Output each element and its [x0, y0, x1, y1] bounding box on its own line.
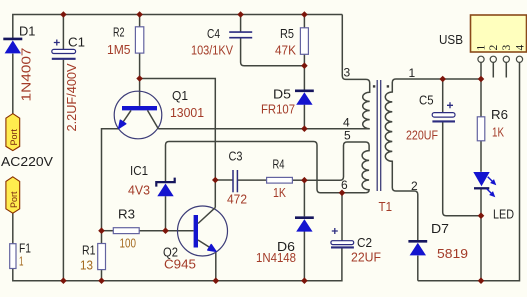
wire C3 right to R4	[237, 179, 266, 181]
capacitor C4	[229, 32, 252, 38]
wire Q1 collector to pin4	[158, 128, 370, 130]
node C4 top	[237, 11, 244, 18]
values orange	[19, 236, 136, 273]
wire C4 bottom to R5	[241, 38, 305, 66]
svg-text:R5: R5	[280, 26, 294, 41]
svg-text:4: 4	[343, 115, 350, 129]
wire Q1 emitter run	[102, 129, 119, 231]
svg-text:D5: D5	[273, 87, 291, 102]
wire LED bottom	[480, 188, 482, 281]
node C1 bottom rail	[60, 277, 67, 284]
svg-text:6: 6	[341, 178, 348, 192]
wire port2 to F1	[12, 213, 14, 244]
svg-text:2: 2	[411, 179, 418, 193]
transistor Q2	[178, 206, 228, 256]
svg-text:R2: R2	[113, 24, 125, 39]
node R2 top	[136, 11, 143, 18]
wire D6 top	[303, 180, 305, 216]
svg-text:Q1: Q1	[172, 88, 188, 103]
USB pin circle 1	[478, 56, 484, 62]
svg-text:USB: USB	[439, 33, 463, 47]
transformer T1 core	[377, 80, 381, 191]
capacitor C3	[233, 170, 237, 192]
values red	[19, 42, 505, 272]
capacitor C2	[331, 228, 354, 247]
node Q2 emitter rail	[213, 277, 220, 284]
node R2 bottom / Q1 base	[136, 75, 143, 82]
svg-text:5819: 5819	[437, 246, 468, 261]
wire D5 bottom	[303, 105, 305, 129]
wire R5 top	[303, 15, 305, 28]
node LED / C5	[478, 212, 485, 219]
svg-text:T1: T1	[379, 199, 393, 214]
wire R3 right to Q2 base	[139, 230, 193, 232]
svg-text:C1: C1	[68, 35, 85, 50]
wire R2 to Q2 collector	[140, 79, 216, 208]
wire R1 top	[101, 231, 103, 244]
svg-text:AC220V: AC220V	[1, 154, 53, 169]
wire R1 bottom	[101, 270, 103, 281]
resistor R3 body	[113, 228, 139, 234]
svg-text:R1: R1	[82, 243, 96, 258]
svg-text:R3: R3	[118, 207, 135, 222]
zener diode IC1	[156, 178, 174, 197]
svg-text:2: 2	[488, 45, 500, 51]
node LED rail	[478, 277, 485, 284]
node D5 bottom / pin4	[301, 125, 308, 132]
wire USB pin2 stub	[492, 62, 494, 77]
wire R6 to LED	[480, 141, 482, 172]
svg-text:3: 3	[344, 66, 351, 80]
node R3 right / IC1	[162, 227, 169, 234]
node pin1 / R6	[478, 76, 485, 83]
node D6 bottom rail	[301, 277, 308, 284]
wire C3 left	[215, 179, 232, 181]
resistor R1 body	[98, 244, 106, 270]
svg-text:1: 1	[19, 254, 24, 269]
T1 polarity dot upper	[373, 85, 375, 87]
capacitor C1	[52, 40, 76, 59]
svg-text:47K: 47K	[275, 42, 296, 57]
transformer pin numbers	[341, 66, 418, 194]
wire R3 left	[102, 230, 114, 232]
svg-text:C945: C945	[164, 257, 196, 272]
wire D5 top	[303, 66, 305, 90]
svg-text:13: 13	[80, 258, 93, 273]
wire C2 top	[341, 193, 343, 241]
wire D6 bottom	[303, 231, 305, 280]
wire R2 top	[139, 15, 141, 27]
wire C5 bottom to LED node	[443, 123, 481, 216]
T1 polarity dot secondary	[387, 85, 389, 87]
svg-text:103/1KV: 103/1KV	[191, 43, 233, 58]
wire bottom rail left	[13, 248, 342, 281]
svg-text:R4: R4	[273, 157, 285, 172]
svg-text:1M5: 1M5	[107, 42, 131, 57]
wire R4 right	[292, 179, 305, 181]
diode D5	[295, 91, 314, 105]
svg-text:1: 1	[476, 45, 488, 51]
winding lower primary T1 5-6	[305, 142, 369, 193]
svg-text:IC1: IC1	[130, 163, 148, 178]
resistor R4 body	[267, 177, 293, 183]
svg-text:5: 5	[344, 128, 351, 142]
svg-text:D1: D1	[19, 24, 35, 39]
svg-text:C3: C3	[229, 149, 243, 164]
capacitor C5	[432, 102, 455, 121]
svg-text:C2: C2	[357, 235, 372, 250]
svg-text:4V3: 4V3	[128, 183, 150, 198]
wire top rail	[13, 15, 343, 39]
svg-text:D7: D7	[431, 221, 449, 236]
wire C4 top	[240, 15, 242, 32]
wire C1 top	[62, 15, 64, 50]
LED D_led	[473, 172, 496, 197]
wire R2 bottom	[139, 53, 141, 78]
node R4 / D6	[301, 177, 308, 184]
USB pin circle 4	[516, 56, 522, 62]
winding upper primary T1 3-4	[363, 79, 370, 128]
fuse F1 body	[10, 244, 16, 269]
svg-text:1N4148: 1N4148	[256, 250, 296, 265]
wire C1 bottom	[62, 60, 64, 281]
svg-text:22UF: 22UF	[351, 250, 381, 265]
wire USB pin1 stub	[480, 62, 482, 79]
port AC in lower	[6, 177, 20, 213]
wire pin3 drop	[342, 15, 366, 80]
svg-text:R6: R6	[491, 107, 508, 122]
svg-text:1: 1	[409, 66, 416, 80]
wire R5 bottom	[303, 54, 305, 65]
node R1 bottom rail	[98, 277, 105, 284]
port AC in upper	[6, 114, 20, 151]
wire D1 to port	[12, 54, 14, 114]
wire Q1 base	[139, 79, 141, 106]
svg-text:C4: C4	[207, 26, 220, 41]
resistor R5 body	[300, 28, 308, 55]
wire bottom rail right	[418, 62, 520, 280]
node R3 left / Q1 emitter / R1	[98, 227, 105, 234]
labels black	[1, 24, 514, 260]
svg-text:2.2UF/400V: 2.2UF/400V	[64, 63, 79, 131]
diode D7	[408, 241, 427, 255]
wire R6 top	[480, 79, 482, 117]
svg-text:Port: Port	[9, 191, 19, 208]
svg-text:3: 3	[501, 45, 513, 51]
wire IC1 top to pin6	[166, 142, 366, 193]
svg-text:472: 472	[227, 192, 247, 207]
node R5 bottom / C4	[301, 62, 308, 69]
svg-text:1N4007: 1N4007	[19, 47, 34, 101]
svg-text:Port: Port	[9, 128, 19, 145]
resistor R6 body	[477, 117, 485, 141]
svg-text:1K: 1K	[273, 185, 286, 200]
wire IC1 bottom	[165, 196, 167, 231]
node C3 left	[212, 177, 219, 184]
transistor Q1	[114, 91, 162, 139]
node C5 top	[439, 76, 446, 83]
svg-text:4: 4	[515, 45, 527, 51]
node C1 top	[60, 11, 67, 18]
wire USB pin3 stub	[505, 62, 507, 77]
winding secondary T1 1-2	[385, 79, 481, 241]
svg-text:220UF: 220UF	[406, 128, 438, 143]
svg-text:1K: 1K	[492, 125, 504, 140]
wire C5 top	[442, 79, 444, 112]
svg-text:FR107: FR107	[261, 102, 295, 117]
node R5 top	[301, 11, 308, 18]
wire Q2 emitter down	[215, 251, 217, 280]
USB pin circle 3	[503, 56, 509, 62]
USB connector J1	[471, 15, 527, 62]
svg-text:13001: 13001	[170, 105, 204, 120]
node pin6 / C2	[339, 190, 346, 197]
svg-text:LED: LED	[493, 207, 514, 222]
diode D1	[3, 39, 22, 54]
svg-text:100: 100	[120, 236, 137, 251]
diode D6	[295, 218, 314, 232]
resistor R2 body	[135, 27, 143, 53]
USB pin circle 2	[490, 56, 496, 62]
wire D7 bottom	[417, 256, 419, 281]
svg-text:C5: C5	[419, 93, 434, 108]
